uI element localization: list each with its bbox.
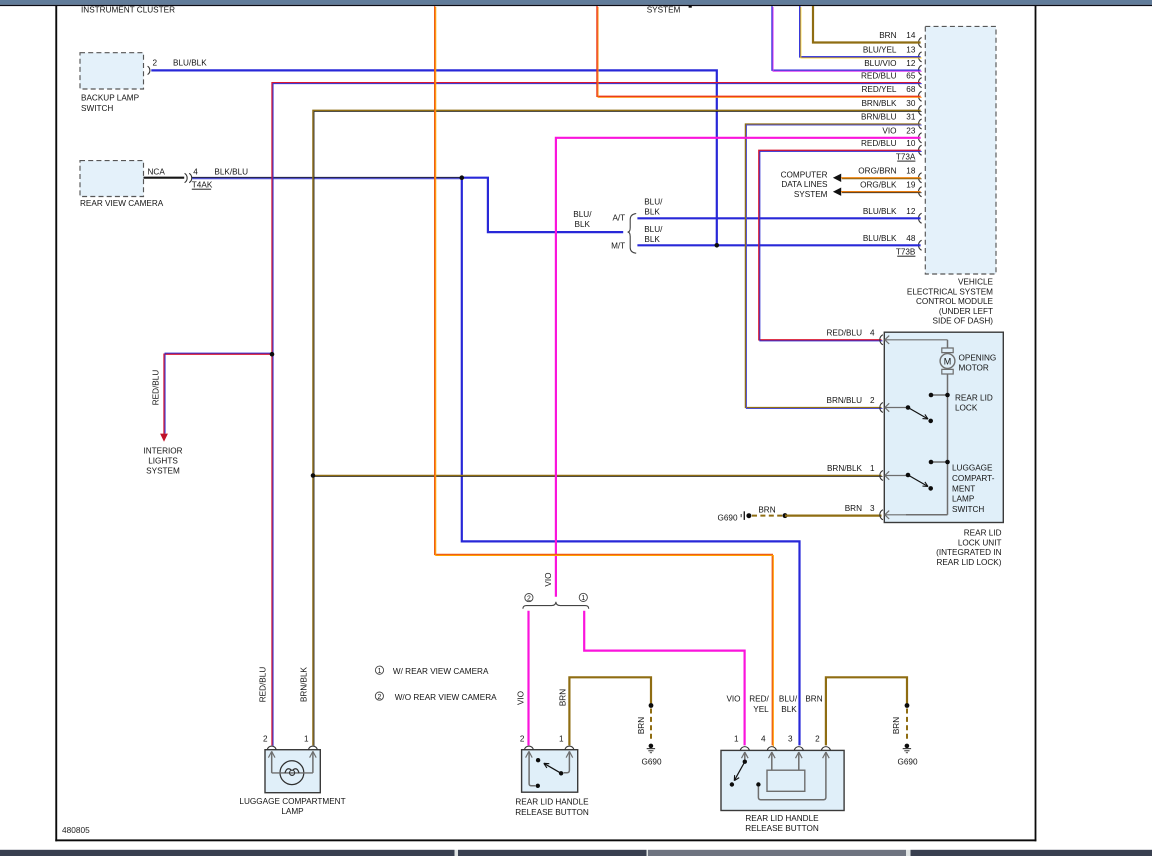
lock unit pin arrow y=476	[885, 471, 907, 479]
svg-text:2: 2	[870, 396, 875, 405]
top browser bar	[0, 0, 1152, 5]
wire BLU/YEL module pin 13	[800, 6, 922, 58]
module pin arcs	[919, 38, 922, 251]
svg-text:1: 1	[870, 464, 875, 473]
luggage switch fixed contacts	[931, 461, 948, 463]
junction BRN dashed (right)	[905, 703, 910, 708]
svg-text:VIO: VIO	[544, 572, 553, 586]
luggage switch blade	[908, 475, 928, 487]
circled 1 at brace	[579, 593, 587, 602]
svg-text:W/ REAR VIEW CAMERA: W/ REAR VIEW CAMERA	[393, 667, 489, 676]
svg-text:SYSTEM: SYSTEM	[647, 5, 681, 14]
A/T M/T brace	[628, 214, 637, 254]
svg-text:G690: G690	[717, 513, 737, 522]
svg-text:BLK: BLK	[781, 705, 797, 714]
lamp internal wires	[272, 751, 313, 773]
svg-text:BRN/BLK: BRN/BLK	[299, 666, 308, 702]
opening motor symbol	[940, 348, 955, 374]
svg-text:2: 2	[815, 735, 820, 744]
junction RED/BLU branch	[270, 352, 275, 357]
svg-text:BLU/BLK: BLU/BLK	[173, 59, 207, 68]
arrow to computer data lines (pin 19)	[833, 188, 841, 196]
lamp pin arc x=313	[308, 746, 317, 750]
svg-text:BLK: BLK	[575, 220, 591, 229]
svg-text:2: 2	[153, 59, 158, 68]
wire BRN module pin 14	[813, 6, 921, 43]
svg-text:4: 4	[761, 735, 766, 744]
wire RED/YEL module pin 68	[597, 6, 922, 97]
svg-text:SIDE OF DASH): SIDE OF DASH)	[932, 317, 993, 326]
svg-text:M: M	[944, 357, 952, 367]
svg-text:VIO: VIO	[517, 691, 526, 705]
large button switch blade	[734, 762, 745, 781]
svg-text:INTERIOR: INTERIOR	[143, 446, 182, 455]
small button internal wires	[529, 751, 569, 785]
bottom bar segment 2	[458, 850, 647, 856]
ground G690 left	[647, 744, 655, 754]
svg-text:INSTRUMENT CLUSTER: INSTRUMENT CLUSTER	[81, 6, 175, 15]
svg-text:RED/BLU: RED/BLU	[827, 329, 863, 338]
svg-text:SYSTEM: SYSTEM	[794, 190, 828, 199]
junction backup wire on M/T wire	[715, 243, 720, 248]
svg-text:BLU/BLK: BLU/BLK	[863, 207, 897, 216]
legend circled 1	[375, 666, 383, 675]
svg-text:BLU/: BLU/	[573, 210, 592, 219]
bottom bar divider 2	[647, 850, 649, 856]
svg-text:BLU/YEL: BLU/YEL	[863, 46, 897, 55]
large button pin arrow x=745	[742, 752, 749, 758]
rear lid lock blade pivot dot	[906, 405, 911, 410]
vehicle electrical system control module box	[925, 26, 996, 274]
svg-text:VIO: VIO	[882, 127, 896, 136]
svg-text:SWITCH: SWITCH	[952, 505, 984, 514]
svg-text:1: 1	[304, 735, 309, 744]
luggage switch contact dot right	[945, 460, 950, 465]
lock unit pin arrow y=515	[885, 511, 948, 519]
luggage switch blade pivot dot	[906, 473, 911, 478]
lock unit internal wire pin4 to motor	[947, 340, 949, 348]
arrow to interior lights system	[160, 434, 168, 442]
svg-text:1: 1	[581, 595, 585, 602]
svg-text:RELEASE BUTTON: RELEASE BUTTON	[745, 824, 819, 833]
svg-text:REAR LID LOCK): REAR LID LOCK)	[936, 558, 1001, 567]
svg-text:480805: 480805	[62, 825, 90, 835]
svg-text:23: 23	[906, 127, 916, 136]
svg-text:DATA LINES: DATA LINES	[781, 180, 828, 189]
svg-text:A/T: A/T	[612, 214, 625, 223]
wire BLK/BLU from rear view camera	[192, 178, 462, 179]
wire ORG/BLK module pin 19	[841, 192, 922, 193]
rear lid lock contact dot right	[945, 393, 950, 398]
svg-text:BRN/BLK: BRN/BLK	[827, 464, 863, 473]
svg-text:RED/BLU: RED/BLU	[861, 139, 897, 148]
svg-text:G690: G690	[897, 757, 917, 766]
svg-text:BLU/: BLU/	[644, 197, 663, 206]
T73B underline	[897, 256, 915, 257]
svg-text:1: 1	[734, 735, 739, 744]
svg-text:BLU/BLK: BLU/BLK	[863, 234, 897, 243]
svg-text:BRN: BRN	[845, 504, 862, 513]
svg-text:68: 68	[906, 85, 916, 94]
svg-text:LOCK: LOCK	[955, 404, 978, 413]
svg-text:12: 12	[906, 207, 916, 216]
svg-text:(INTEGRATED IN: (INTEGRATED IN	[936, 548, 1001, 557]
svg-text:REAR LID HANDLE: REAR LID HANDLE	[745, 814, 819, 823]
frame top line	[0, 5, 1152, 6]
small button fixed contact dot	[536, 758, 540, 762]
rear lid handle release button (4-pin) box	[721, 750, 844, 810]
svg-text:1: 1	[559, 735, 564, 744]
wire BLU/BLK junction to A/T-M/T brace	[462, 178, 623, 232]
svg-text:COMPART-: COMPART-	[952, 474, 995, 483]
small button blade pivot dot	[559, 771, 563, 775]
large button pin arrow x=799	[796, 752, 803, 758]
bottom bar divider 1	[455, 850, 459, 856]
svg-text:RED/YEL: RED/YEL	[861, 85, 896, 94]
wire BLU/BLK M/T to module pin 48	[637, 244, 920, 246]
svg-text:3: 3	[788, 735, 793, 744]
small button pin arrow x=529	[526, 751, 533, 757]
svg-text:REAR VIEW CAMERA: REAR VIEW CAMERA	[80, 199, 164, 208]
svg-text:BLK: BLK	[644, 208, 660, 217]
luggage switch blade end dot	[928, 486, 933, 491]
svg-text:4: 4	[870, 329, 875, 338]
svg-text:(UNDER LEFT: (UNDER LEFT	[939, 307, 993, 316]
rear lid lock contact dot left	[929, 393, 934, 398]
svg-text:YEL: YEL	[753, 705, 769, 714]
rear lid lock switch blade	[908, 408, 928, 420]
svg-text:BRN/BLU: BRN/BLU	[827, 396, 863, 405]
svg-text:BLK: BLK	[644, 235, 660, 244]
T4AK underline	[192, 189, 211, 190]
circled 2 at brace	[525, 594, 533, 603]
bottom bar divider 3	[906, 850, 911, 856]
svg-text:VEHICLE: VEHICLE	[958, 278, 994, 287]
svg-text:BACKUP LAMP: BACKUP LAMP	[81, 93, 140, 102]
lock unit pin arrow y=408	[885, 403, 907, 411]
svg-text:SYSTEM: SYSTEM	[146, 467, 180, 476]
T73A underline	[897, 161, 915, 162]
svg-text:T73B: T73B	[896, 247, 916, 256]
large button blade pivot dot	[743, 760, 747, 764]
large button actuator rectangle	[767, 770, 805, 791]
lock unit pin arrow y=340	[885, 336, 948, 344]
svg-text:BLU/: BLU/	[779, 695, 798, 704]
camera pigtail wire	[144, 177, 185, 179]
rear lid lock fixed contacts	[931, 394, 948, 396]
svg-text:2: 2	[263, 735, 268, 744]
lamp pin arrow x=272	[268, 751, 275, 757]
lamp pin arrow x=313	[310, 751, 317, 757]
large button contact dot (pin2 side)	[756, 782, 760, 786]
svg-text:1: 1	[378, 668, 382, 675]
rear lid lock unit box	[884, 332, 1003, 522]
small button contact dot (pin2 side)	[536, 784, 540, 788]
junction camera/blu-blk wires	[460, 175, 465, 180]
wire BRN/BLK module pin 30 to luggage lamp pin 1	[313, 110, 922, 746]
wire BLU/BLK from backup lamp switch	[151, 70, 717, 244]
small button switch blade	[544, 763, 561, 773]
frame bottom line	[55, 839, 1036, 841]
svg-text:ELECTRICAL SYSTEM: ELECTRICAL SYSTEM	[907, 287, 993, 296]
wire BLU/BLK A/T to module pin 12	[637, 217, 920, 219]
svg-text:4: 4	[193, 168, 198, 177]
svg-text:LAMP: LAMP	[281, 807, 304, 816]
wire BRN to lock unit pin 3	[785, 514, 882, 516]
svg-text:BRN: BRN	[879, 31, 896, 40]
wire BRN/BLU module pin 31 to lock unit pin 2	[745, 124, 921, 409]
lamp pin arc x=272	[267, 746, 276, 750]
rear lid handle release button (2-pin) box	[522, 750, 578, 793]
legend circled 2	[375, 692, 383, 701]
junction BRN at lock unit	[783, 513, 788, 518]
VIO split brace	[523, 602, 589, 609]
junction BRN dashed (left)	[649, 703, 654, 708]
large button internal wires	[745, 752, 826, 800]
backup lamp switch pin arc	[148, 66, 150, 74]
svg-text:BRN: BRN	[892, 717, 901, 734]
wire BRN dashed from G690 to junction	[752, 515, 783, 517]
svg-text:RED/: RED/	[749, 695, 769, 704]
svg-text:2: 2	[377, 694, 381, 701]
bottom bar segment 1	[0, 850, 455, 856]
small button pin arc x=529	[524, 746, 533, 750]
svg-text:LOCK UNIT: LOCK UNIT	[958, 538, 1002, 547]
lamp bulb symbol	[272, 761, 313, 785]
svg-text:COMPUTER: COMPUTER	[781, 170, 828, 179]
svg-text:BRN: BRN	[637, 717, 646, 734]
frame right line	[1035, 6, 1037, 841]
svg-text:13: 13	[906, 46, 916, 55]
wire RED/BLU branch to interior lights system	[164, 353, 273, 434]
bottom bar segment 4	[911, 850, 1152, 856]
svg-text:19: 19	[906, 180, 916, 189]
large button pin arc x=772	[767, 747, 776, 751]
wire RED/BLU module pin 65 to luggage lamp pin 2	[272, 83, 922, 747]
svg-text:REAR LID: REAR LID	[955, 394, 993, 403]
svg-text:BRN/BLK: BRN/BLK	[861, 99, 897, 108]
svg-text:10: 10	[906, 139, 916, 148]
svg-text:BLU/VIO: BLU/VIO	[864, 59, 896, 68]
ground G690 lock unit	[741, 511, 752, 520]
svg-text:LUGGAGE COMPARTMENT: LUGGAGE COMPARTMENT	[239, 797, 345, 806]
svg-text:NCA: NCA	[148, 167, 166, 176]
svg-text:LUGGAGE: LUGGAGE	[952, 464, 993, 473]
large button pin arc x=799	[794, 747, 803, 751]
junction BRN/BLK branch	[311, 473, 316, 478]
svg-text:14: 14	[906, 31, 916, 40]
wire BLU/BLK down to release button pin 3	[462, 178, 800, 746]
svg-text:65: 65	[906, 71, 916, 80]
svg-text:T73A: T73A	[896, 152, 916, 161]
svg-text:G690: G690	[641, 757, 661, 766]
frame left line	[55, 6, 57, 841]
cut text tick	[689, 6, 692, 8]
rear lid lock blade end dot	[928, 419, 933, 424]
ground G690 right	[903, 744, 911, 754]
svg-text:30: 30	[906, 99, 916, 108]
svg-text:RED/BLU: RED/BLU	[258, 667, 267, 703]
svg-text:BRN: BRN	[559, 689, 568, 706]
svg-text:T4AK: T4AK	[192, 181, 213, 190]
svg-text:BRN: BRN	[805, 695, 822, 704]
svg-text:LIGHTS: LIGHTS	[148, 457, 178, 466]
arrow to computer data lines (pin 18)	[833, 174, 841, 182]
svg-text:31: 31	[906, 113, 916, 122]
wire BLU/VIO module pin 12	[772, 6, 922, 71]
svg-text:REAR LID HANDLE: REAR LID HANDLE	[515, 798, 589, 807]
wire BRN from small release button pin 1	[569, 677, 651, 745]
svg-text:MENT: MENT	[952, 484, 975, 493]
wire ORG/BRN module pin 18	[841, 178, 922, 179]
svg-text:OPENING: OPENING	[959, 354, 997, 363]
lock unit internal wire motor to pin3	[906, 374, 948, 515]
svg-text:BLK/BLU: BLK/BLU	[214, 167, 248, 176]
wire BRN dashed to ground G690 (right)	[906, 709, 908, 742]
luggage switch contact dot left	[929, 460, 934, 465]
bottom bar segment 3 (light)	[648, 850, 906, 856]
backup lamp switch box	[80, 53, 144, 89]
luggage compartment lamp box	[265, 750, 320, 793]
svg-text:M/T: M/T	[611, 242, 625, 251]
svg-text:BLU/: BLU/	[644, 225, 663, 234]
svg-text:REAR LID: REAR LID	[964, 528, 1002, 537]
wire BRN dashed to ground G690 (left)	[650, 709, 652, 742]
svg-text:MOTOR: MOTOR	[959, 364, 989, 373]
lock unit pin arcs	[880, 335, 883, 520]
wire BRN from large release button pin 2	[826, 677, 907, 745]
wire VIO module pin 23	[556, 138, 921, 597]
svg-text:LAMP: LAMP	[952, 495, 975, 504]
large button pin arrow x=772	[769, 752, 776, 758]
svg-text:ORG/BRN: ORG/BRN	[858, 167, 896, 176]
svg-text:VIO: VIO	[726, 695, 740, 704]
svg-text:2: 2	[520, 735, 525, 744]
rear view camera box	[80, 161, 144, 197]
svg-text:ORG/BLK: ORG/BLK	[860, 180, 897, 189]
large button pin arrow x=826	[823, 752, 830, 758]
svg-text:18: 18	[906, 167, 916, 176]
svg-text:12: 12	[906, 59, 916, 68]
svg-text:2: 2	[527, 595, 531, 602]
wire BRN/BLK branch to lock unit pin 1	[313, 476, 883, 477]
svg-text:RED/BLU: RED/BLU	[861, 71, 897, 80]
camera inline connector	[185, 173, 192, 182]
large button blade end dot	[730, 782, 734, 786]
small button pin arc x=569	[565, 746, 574, 750]
small button pin arrow x=569	[566, 751, 573, 757]
svg-text:48: 48	[906, 234, 916, 243]
svg-text:SWITCH: SWITCH	[81, 104, 113, 113]
svg-text:BRN: BRN	[758, 505, 775, 514]
wire VIO option 2 to release button pin 2	[527, 611, 529, 746]
svg-text:3: 3	[870, 504, 875, 513]
large button pin arc x=826	[821, 747, 830, 751]
svg-text:RED/BLU: RED/BLU	[152, 370, 161, 406]
large button pin arc x=745	[740, 747, 749, 751]
svg-text:CONTROL MODULE: CONTROL MODULE	[916, 297, 994, 306]
svg-text:W/O REAR VIEW CAMERA: W/O REAR VIEW CAMERA	[395, 693, 497, 702]
wire RED/BLU module pin 10 to lock unit pin 4	[759, 150, 922, 341]
wire VIO option 1 to release button pin 1	[584, 611, 744, 746]
wire RED/YEL to release button pin 4	[435, 6, 774, 746]
svg-text:BRN/BLU: BRN/BLU	[861, 113, 897, 122]
svg-text:RELEASE BUTTON: RELEASE BUTTON	[515, 808, 589, 817]
